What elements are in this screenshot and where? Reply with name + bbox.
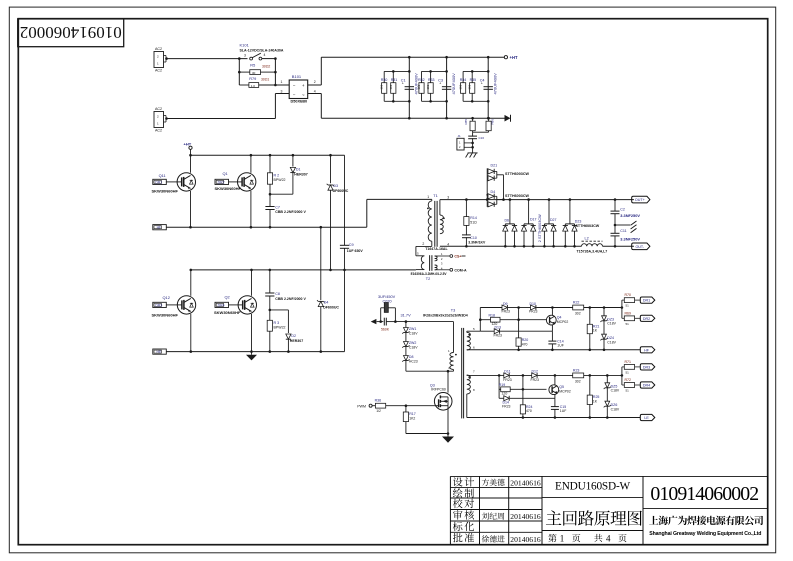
svg-text:DF600UC: DF600UC bbox=[323, 305, 339, 309]
terminal +HT bbox=[504, 56, 507, 59]
upper bridge mid rail bbox=[166, 226, 367, 228]
svg-text:R23: R23 bbox=[573, 369, 580, 373]
lower bridge top rail bbox=[191, 269, 416, 271]
svg-text:D6: D6 bbox=[505, 219, 510, 223]
wire drain bbox=[447, 371, 449, 392]
svg-text:R36: R36 bbox=[375, 398, 382, 402]
svg-text:51: 51 bbox=[626, 322, 630, 326]
svg-text:D4: D4 bbox=[324, 300, 329, 304]
terminal +HT at bridge bbox=[189, 146, 192, 149]
upper bridge top rail bbox=[191, 154, 345, 156]
svg-text:T1647A-16AL: T1647A-16AL bbox=[425, 247, 448, 251]
zener ZW2 bbox=[405, 333, 407, 342]
title block grid bbox=[450, 475, 542, 477]
wire source to ground bbox=[447, 406, 449, 434]
ground wire bbox=[406, 433, 448, 435]
svg-text:470UF400V: 470UF400V bbox=[414, 73, 419, 95]
zener D8 bbox=[405, 347, 407, 356]
zener DZ3 bbox=[603, 308, 605, 316]
title block row labels bbox=[453, 477, 474, 486]
svg-text:R85: R85 bbox=[464, 119, 468, 125]
svg-text:HER307: HER307 bbox=[294, 173, 307, 177]
svg-text:51Ω: 51Ω bbox=[470, 221, 477, 225]
IGBT Q12 bbox=[190, 270, 192, 296]
diode D14 bbox=[504, 396, 509, 401]
diode D4 clamp bbox=[320, 227, 322, 300]
svg-text:30: 30 bbox=[252, 71, 256, 75]
T3 secondary 1 bbox=[467, 332, 471, 350]
diode D12 bbox=[532, 373, 537, 378]
resistor R20 bbox=[518, 308, 520, 338]
svg-text:R20: R20 bbox=[522, 338, 529, 342]
svg-text:DZ4: DZ4 bbox=[607, 336, 614, 340]
MOSFET Q3 bbox=[434, 393, 452, 411]
svg-text:R17: R17 bbox=[409, 412, 416, 416]
lower bridge bottom rail bbox=[166, 351, 345, 353]
svg-text:MCP02: MCP02 bbox=[559, 389, 571, 393]
svg-text:470: 470 bbox=[526, 409, 532, 413]
svg-text:30Ω2: 30Ω2 bbox=[262, 65, 270, 69]
wire primary return bbox=[406, 370, 454, 372]
svg-text:470UF400V: 470UF400V bbox=[493, 73, 498, 95]
svg-text:D21: D21 bbox=[491, 164, 498, 168]
svg-text:R19: R19 bbox=[499, 383, 506, 387]
svg-text:010914060002: 010914060002 bbox=[20, 23, 122, 42]
diode D2 bbox=[270, 309, 289, 311]
resistor R18 bbox=[480, 319, 490, 321]
svg-text:D10: D10 bbox=[530, 302, 537, 306]
svg-text:IF28x20Bx9x2b2b2b/W3D4: IF28x20Bx9x2b2b2b/W3D4 bbox=[423, 313, 468, 317]
tag OUT+ bbox=[632, 196, 650, 203]
earth at output caps bbox=[615, 224, 630, 226]
svg-text:R32: R32 bbox=[418, 78, 425, 82]
svg-text:ZW2: ZW2 bbox=[409, 341, 417, 345]
svg-text:DZ3: DZ3 bbox=[607, 317, 614, 321]
svg-text:C18V: C18V bbox=[611, 389, 620, 393]
svg-text:C1: C1 bbox=[401, 79, 406, 83]
svg-text:4: 4 bbox=[264, 53, 266, 57]
bleed resistors R34 R35 bbox=[463, 70, 488, 72]
svg-text:DR4: DR4 bbox=[218, 303, 225, 307]
svg-text:C7: C7 bbox=[275, 205, 280, 209]
svg-text:DF600UC: DF600UC bbox=[333, 189, 349, 193]
capacitor C2 bbox=[614, 200, 616, 211]
snubber R14 bbox=[465, 200, 467, 217]
resistor R3 bbox=[267, 320, 272, 331]
svg-text:PWM: PWM bbox=[357, 405, 366, 409]
svg-text:T3: T3 bbox=[451, 308, 455, 312]
output top rail bbox=[440, 199, 634, 201]
svg-text:HE: HE bbox=[156, 350, 161, 354]
resistor R5 bbox=[239, 71, 250, 73]
T2 output CS+ bbox=[435, 255, 450, 257]
svg-text:R25: R25 bbox=[593, 395, 600, 399]
svg-text:D1: D1 bbox=[296, 168, 301, 172]
svg-text:3.3NF/1KV: 3.3NF/1KV bbox=[468, 240, 486, 244]
svg-text:CS+: CS+ bbox=[454, 255, 461, 259]
net arrow flag right bbox=[505, 115, 511, 122]
tag HE bbox=[153, 349, 167, 354]
svg-text:R86: R86 bbox=[491, 119, 495, 125]
svg-text:CBB 2.2NF/2000 V: CBB 2.2NF/2000 V bbox=[275, 210, 306, 214]
svg-text:D11: D11 bbox=[504, 369, 510, 373]
capacitor C11 bbox=[611, 232, 620, 234]
transistor Q5 bbox=[554, 375, 556, 385]
diode pair D17 bbox=[528, 200, 530, 224]
svg-text:Q11: Q11 bbox=[159, 173, 166, 178]
svg-text:Q4: Q4 bbox=[557, 315, 562, 319]
svg-text:+: + bbox=[302, 83, 305, 88]
svg-text:2 STTH6003CW: 2 STTH6003CW bbox=[538, 214, 542, 242]
svg-text:D23: D23 bbox=[575, 219, 582, 223]
zener DZ5 bbox=[606, 375, 608, 382]
svg-text:Q5: Q5 bbox=[559, 385, 564, 389]
page row 第1页共4页 bbox=[548, 534, 556, 542]
svg-text:20140616: 20140616 bbox=[510, 535, 541, 544]
svg-text:AC2: AC2 bbox=[155, 69, 162, 73]
svg-text:51: 51 bbox=[626, 389, 630, 393]
capacitor C14 bbox=[551, 331, 553, 341]
svg-text:E16306A-3.2MH-0/L2.5V: E16306A-3.2MH-0/L2.5V bbox=[411, 272, 448, 276]
capacitor C7 bbox=[265, 206, 274, 208]
resistor R19 bbox=[499, 388, 501, 390]
svg-text:R30: R30 bbox=[381, 78, 388, 82]
svg-text:R72: R72 bbox=[625, 378, 632, 382]
svg-text:2: 2 bbox=[422, 242, 424, 246]
svg-text:DZ6: DZ6 bbox=[611, 403, 618, 407]
svg-text:J1: J1 bbox=[458, 134, 462, 138]
svg-text:1.0: 1.0 bbox=[251, 84, 256, 88]
svg-text:101: 101 bbox=[459, 84, 463, 89]
svg-text:101: 101 bbox=[468, 84, 472, 89]
svg-text:SKW30N60HF: SKW30N60HF bbox=[152, 313, 179, 318]
svg-text:R69: R69 bbox=[625, 311, 632, 315]
svg-text:R34: R34 bbox=[460, 78, 467, 82]
zener DZ6 bbox=[605, 401, 610, 406]
svg-text:HER307: HER307 bbox=[290, 339, 303, 343]
svg-text:1: 1 bbox=[427, 195, 429, 199]
resistor R85 bbox=[472, 118, 474, 121]
svg-text:R18: R18 bbox=[489, 314, 496, 318]
zener DZ4 bbox=[602, 334, 607, 339]
svg-text:560K: 560K bbox=[381, 327, 390, 331]
svg-text:R5: R5 bbox=[250, 64, 255, 68]
svg-text:51: 51 bbox=[626, 370, 630, 374]
pin7 wire bbox=[467, 374, 499, 376]
svg-text:470: 470 bbox=[522, 342, 528, 346]
svg-text:−: − bbox=[293, 83, 296, 88]
vertical pin5 branch bbox=[479, 308, 481, 332]
svg-text:D12: D12 bbox=[532, 369, 539, 373]
svg-text:1UF: 1UF bbox=[560, 409, 567, 413]
transistor Q4 bbox=[551, 308, 553, 316]
svg-text:AC2: AC2 bbox=[155, 129, 162, 133]
svg-text:R71: R71 bbox=[625, 360, 632, 364]
svg-text:AC2: AC2 bbox=[155, 107, 162, 111]
tag OUT- bbox=[632, 243, 650, 250]
upper aux rail (pin6) bbox=[467, 349, 641, 351]
IGBT Q11 bbox=[190, 155, 192, 173]
vertical pin7 branch bbox=[498, 375, 500, 398]
wire join R85 R86 bbox=[472, 131, 474, 133]
svg-text:1UF 630V: 1UF 630V bbox=[347, 249, 364, 253]
wire mid rail to T1 pin1 bbox=[366, 199, 368, 227]
svg-text:R21: R21 bbox=[593, 324, 600, 328]
svg-text:OUT-: OUT- bbox=[635, 245, 644, 249]
wire left branch vertical bbox=[238, 59, 240, 85]
svg-text:FR23: FR23 bbox=[529, 310, 537, 314]
svg-text:30Ω1: 30Ω1 bbox=[261, 78, 269, 82]
svg-text:STTH6003CW: STTH6003CW bbox=[505, 194, 529, 198]
svg-text:R70: R70 bbox=[625, 293, 632, 297]
wire T1 pin2 to T2 bbox=[431, 241, 433, 246]
capacitor C16 bbox=[472, 132, 474, 136]
svg-text:C18V: C18V bbox=[409, 346, 418, 350]
svg-text:51: 51 bbox=[626, 304, 630, 308]
svg-text:3UF/450V: 3UF/450V bbox=[378, 295, 396, 299]
svg-text:3: 3 bbox=[447, 196, 449, 200]
svg-text:COM-A: COM-A bbox=[454, 268, 467, 272]
svg-text:+HT: +HT bbox=[510, 55, 518, 60]
diode D3 bbox=[330, 155, 332, 183]
svg-text:3: 3 bbox=[281, 89, 283, 93]
svg-text:302: 302 bbox=[575, 312, 581, 316]
svg-text:101: 101 bbox=[417, 84, 421, 89]
svg-text:DR3: DR3 bbox=[155, 303, 162, 307]
wire to T3 primary bbox=[395, 321, 453, 323]
ground at lower rail bbox=[251, 352, 253, 355]
svg-text:R24: R24 bbox=[526, 405, 533, 409]
svg-text:SKW30N60HF: SKW30N60HF bbox=[214, 310, 241, 315]
bleed resistors R30 R31 bbox=[384, 70, 409, 72]
svg-text:BPW22: BPW22 bbox=[274, 178, 286, 182]
DC+ top rail bbox=[321, 56, 504, 58]
gate drive outputs lower bbox=[621, 367, 623, 376]
svg-text:D27: D27 bbox=[550, 218, 557, 222]
svg-text:DR2: DR2 bbox=[218, 180, 225, 184]
earth ground bbox=[468, 152, 478, 154]
dual diode D4 output bbox=[486, 194, 488, 196]
diode D10 bbox=[519, 307, 531, 309]
svg-text:Shanghai Greatway Welding Equi: Shanghai Greatway Welding Equipment Co.,… bbox=[649, 531, 761, 537]
svg-text:HF: HF bbox=[157, 226, 162, 230]
resistor R16 bbox=[375, 403, 385, 408]
svg-text:SKW30N60HF: SKW30N60HF bbox=[215, 186, 242, 191]
svg-text:AC2: AC2 bbox=[155, 47, 162, 51]
svg-text:IRFPC60: IRFPC60 bbox=[431, 387, 446, 391]
svg-text:D13: D13 bbox=[495, 326, 502, 330]
svg-text:4: 4 bbox=[314, 89, 316, 93]
diode D11 bbox=[504, 373, 509, 378]
svg-text:FR23: FR23 bbox=[502, 405, 510, 409]
resistor R22 bbox=[573, 305, 584, 310]
svg-text:LE: LE bbox=[644, 416, 649, 420]
svg-text:D50XB80: D50XB80 bbox=[291, 99, 308, 103]
svg-text:FR23: FR23 bbox=[502, 310, 510, 314]
net arrow flag left bbox=[371, 319, 377, 324]
svg-text:C18V: C18V bbox=[409, 332, 418, 336]
svg-text:R 3: R 3 bbox=[274, 321, 280, 325]
svg-text:R22: R22 bbox=[573, 301, 580, 305]
wire AC2 top to K101 bbox=[166, 58, 248, 60]
bleed resistor parallel loop bbox=[380, 308, 382, 322]
input capacitor C020 bbox=[379, 320, 382, 323]
resistor R2 bbox=[269, 155, 271, 173]
capacitor C8 bbox=[269, 270, 271, 294]
svg-text:C11: C11 bbox=[620, 229, 626, 233]
svg-text:3: 3 bbox=[244, 54, 246, 58]
zener ZW1 bbox=[405, 322, 407, 328]
svg-text:1UF: 1UF bbox=[557, 344, 564, 348]
resistor R17 bbox=[405, 406, 407, 412]
svg-text:T15726A,3.4UH,L7: T15726A,3.4UH,L7 bbox=[577, 249, 608, 253]
wire right branch vertical bbox=[274, 59, 276, 85]
svg-text:BPW22: BPW22 bbox=[274, 325, 286, 329]
svg-text:20140616: 20140616 bbox=[510, 512, 541, 521]
svg-text:Q1: Q1 bbox=[223, 171, 228, 176]
svg-text:DR1: DR1 bbox=[155, 180, 162, 184]
diode D1 bbox=[292, 155, 294, 166]
svg-text:CBB 2.2NF/2000 V: CBB 2.2NF/2000 V bbox=[275, 297, 306, 301]
output bottom rail bbox=[440, 245, 582, 247]
svg-text:C3: C3 bbox=[438, 79, 443, 83]
tag HF right bbox=[640, 347, 655, 353]
svg-text:D2: D2 bbox=[291, 334, 296, 338]
company name CN bbox=[649, 516, 763, 525]
svg-text:T1: T1 bbox=[433, 193, 438, 198]
svg-text:31.7V: 31.7V bbox=[401, 312, 412, 317]
svg-text:010914060002: 010914060002 bbox=[650, 483, 758, 505]
svg-text:D4: D4 bbox=[491, 190, 496, 194]
svg-text:D9: D9 bbox=[503, 302, 508, 306]
gate drive outputs upper bbox=[621, 300, 623, 307]
svg-text:C18V: C18V bbox=[607, 340, 616, 344]
svg-text:101: 101 bbox=[380, 84, 384, 89]
svg-text:ZW1: ZW1 bbox=[409, 327, 417, 331]
bleed resistors R32 R33 bbox=[422, 70, 447, 72]
svg-text:302: 302 bbox=[575, 380, 581, 384]
svg-text:C18V: C18V bbox=[607, 322, 616, 326]
resistor R21 bbox=[589, 308, 591, 325]
diode pair D27 bbox=[548, 200, 550, 224]
dual diode D21 bbox=[486, 168, 488, 207]
svg-text:D8: D8 bbox=[409, 355, 414, 359]
svg-text:DR3: DR3 bbox=[643, 366, 650, 370]
resistor R24 bbox=[522, 375, 524, 404]
svg-text:OUT+: OUT+ bbox=[635, 198, 645, 202]
diode D13 bbox=[480, 330, 494, 332]
svg-text:120: 120 bbox=[502, 392, 508, 396]
svg-text:FR23: FR23 bbox=[494, 334, 502, 338]
svg-text:T2: T2 bbox=[426, 277, 430, 281]
svg-text:D17: D17 bbox=[530, 218, 537, 222]
IGBT Q1 bbox=[250, 155, 252, 173]
svg-text:2: 2 bbox=[314, 80, 316, 84]
svg-text:C4: C4 bbox=[480, 79, 485, 83]
connector AC2 bottom bbox=[154, 112, 164, 128]
connector AC2 top bbox=[154, 52, 164, 68]
svg-text:1: 1 bbox=[560, 533, 565, 543]
svg-text:HF: HF bbox=[644, 348, 650, 352]
capacitor C4 bank group bbox=[487, 57, 489, 118]
svg-text:Q12: Q12 bbox=[163, 295, 170, 300]
svg-text:FR23: FR23 bbox=[531, 378, 539, 382]
diode pair D23 bbox=[569, 200, 571, 224]
svg-text:MCP02: MCP02 bbox=[557, 320, 569, 324]
svg-text:470UF400V: 470UF400V bbox=[451, 73, 456, 95]
svg-text:R35: R35 bbox=[470, 78, 477, 82]
wire to bridge pin 1 bbox=[275, 84, 289, 86]
svg-text:101: 101 bbox=[389, 84, 393, 89]
svg-text:DR1: DR1 bbox=[643, 299, 650, 303]
svg-text:R 2: R 2 bbox=[274, 173, 280, 177]
svg-text:SKW30N60HF: SKW30N60HF bbox=[152, 189, 179, 194]
svg-text:R79: R79 bbox=[249, 77, 256, 81]
svg-text:C9: C9 bbox=[349, 243, 354, 247]
pin8 wire down and right bbox=[466, 394, 468, 418]
svg-text:101: 101 bbox=[426, 84, 430, 89]
svg-text:STTH6003CW: STTH6003CW bbox=[505, 172, 529, 176]
DC- bottom rail bbox=[321, 117, 504, 119]
svg-text:ENDU160SD-W: ENDU160SD-W bbox=[555, 480, 631, 492]
snubber C10 bbox=[465, 225, 467, 235]
diode D9 bbox=[480, 307, 502, 309]
svg-text:3.3NF250V: 3.3NF250V bbox=[620, 236, 640, 241]
capacitor C1 bank group bbox=[408, 57, 410, 118]
svg-text:1K2: 1K2 bbox=[409, 417, 415, 421]
bridge rectifier B101 bbox=[289, 80, 308, 99]
wire T1 pin3 to output rail bbox=[439, 200, 441, 215]
wire cap to earth bbox=[472, 138, 474, 153]
svg-text:1K: 1K bbox=[593, 329, 598, 333]
resistor R79 bbox=[239, 84, 249, 86]
document number box (rotated barcode text) bbox=[18, 19, 124, 47]
svg-text:C18V: C18V bbox=[611, 407, 620, 411]
svg-text:+HT: +HT bbox=[184, 141, 192, 146]
svg-text:−: − bbox=[293, 93, 296, 98]
svg-text:4: 4 bbox=[447, 242, 449, 246]
terminal PWM bbox=[369, 404, 372, 407]
tag HF bbox=[153, 225, 167, 230]
svg-text:STTH6003CW: STTH6003CW bbox=[576, 224, 600, 228]
svg-text:20140616: 20140616 bbox=[510, 479, 541, 488]
svg-text:4: 4 bbox=[606, 533, 611, 543]
svg-text:R31: R31 bbox=[391, 78, 398, 82]
svg-text:SLA-12VDC/SLA-240A30A: SLA-12VDC/SLA-240A30A bbox=[240, 48, 284, 52]
svg-text:K101: K101 bbox=[240, 42, 250, 47]
svg-text:C10: C10 bbox=[470, 236, 477, 240]
capacitor C9 bbox=[344, 155, 346, 245]
svg-text:R33: R33 bbox=[428, 78, 435, 82]
svg-text:C2: C2 bbox=[620, 208, 625, 212]
relay contact K101 bbox=[250, 57, 253, 60]
svg-text:R14: R14 bbox=[470, 216, 477, 220]
svg-text:3.3NF250V: 3.3NF250V bbox=[620, 213, 640, 218]
IGBT Q2 bbox=[251, 270, 253, 296]
svg-text:1: 1 bbox=[281, 80, 283, 84]
resistor R25 bbox=[589, 375, 591, 395]
svg-text:DR4: DR4 bbox=[643, 384, 650, 388]
svg-text:HC23: HC23 bbox=[409, 360, 418, 364]
svg-text:DZ5: DZ5 bbox=[611, 384, 618, 388]
svg-text:C16: C16 bbox=[479, 136, 485, 140]
title block names and dates bbox=[482, 479, 505, 486]
tag LE right bbox=[640, 414, 655, 420]
svg-text:1/2: 1/2 bbox=[376, 409, 381, 413]
schematic title 主回路原理图 bbox=[546, 510, 642, 525]
svg-text:L2: L2 bbox=[585, 236, 589, 240]
resistor R86 bbox=[488, 118, 490, 121]
